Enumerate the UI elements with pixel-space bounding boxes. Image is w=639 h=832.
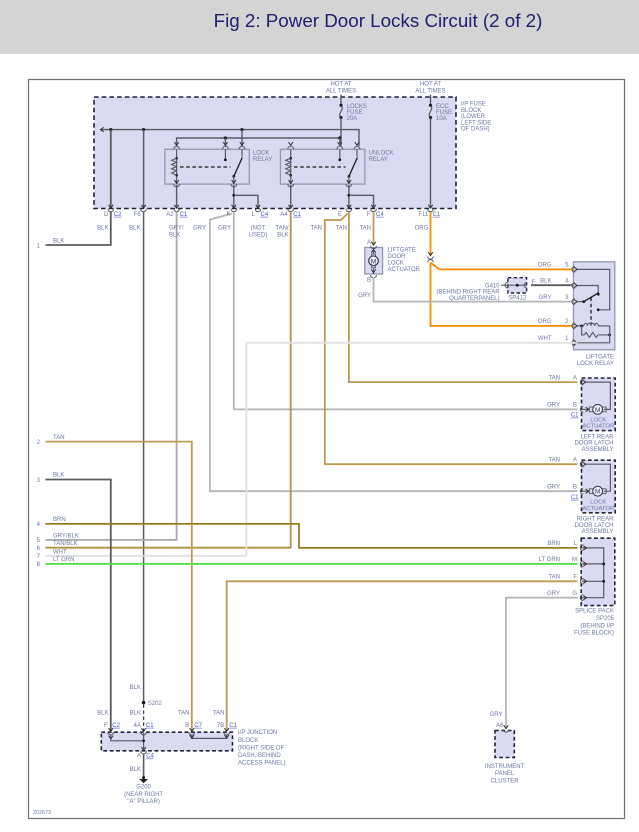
- svg-text:BLK: BLK: [277, 232, 288, 238]
- svg-text:E: E: [338, 212, 342, 218]
- wire TAN pin F down to liftgate actuator pin A: [373, 212, 375, 246]
- splice SP412 dashed box: [508, 278, 527, 293]
- svg-text:I/P FUSE: I/P FUSE: [461, 102, 486, 108]
- fuse block bottom pins cups and arrows: [109, 205, 113, 208]
- svg-text:6: 6: [37, 546, 41, 552]
- bus row A left arrow: [101, 127, 104, 131]
- unlock relay bottom pin cups: [289, 180, 293, 183]
- svg-text:K: K: [226, 211, 230, 217]
- svg-text:BLK: BLK: [130, 685, 141, 691]
- unlock relay control dashed line: [294, 166, 346, 168]
- svg-text:5: 5: [565, 263, 569, 269]
- svg-text:B: B: [367, 278, 371, 284]
- wire from hot feed to ecc fuse: [430, 95, 432, 106]
- svg-text:G200: G200: [136, 785, 151, 791]
- svg-text:LOCK: LOCK: [388, 261, 404, 267]
- svg-text:L: L: [252, 212, 256, 218]
- unlock relay NC contact: [339, 149, 341, 159]
- svg-text:"A" PILLAR): "A" PILLAR): [127, 799, 160, 805]
- svg-text:ASSEMBLY: ASSEMBLY: [582, 529, 614, 535]
- svg-text:ALL TIMES: ALL TIMES: [326, 88, 356, 94]
- svg-text:TAN: TAN: [548, 457, 560, 463]
- svg-text:BLK: BLK: [97, 226, 108, 232]
- svg-text:ACTUATOR: ACTUATOR: [388, 267, 421, 273]
- row3 BLK wire to junction block pin F: [46, 480, 111, 732]
- SP412 internal wire: [509, 284, 527, 286]
- svg-text:GRY: GRY: [547, 591, 560, 597]
- wire GRY pin K diagonal branch down to right rear latch pin B: [210, 214, 578, 492]
- row2 TAN wire to junction block pin B: [46, 442, 192, 731]
- svg-text:HOT AT: HOT AT: [330, 82, 351, 88]
- wire GRY actuator pin B to liftgate relay pin 3: [374, 278, 578, 302]
- lock relay switch arm: [241, 149, 243, 157]
- svg-text:20A: 20A: [347, 116, 358, 122]
- dashed wire S202 to junction block pin 4A: [143, 705, 145, 732]
- wire bus A to lock relay arm pin: [241, 130, 243, 146]
- svg-text:C2: C2: [112, 723, 120, 729]
- junction dots on bus A: [109, 128, 112, 131]
- svg-text:QUARTERPANEL): QUARTERPANEL): [449, 296, 499, 302]
- junction block internal bracket right: [192, 735, 227, 739]
- svg-text:GRY: GRY: [547, 403, 560, 409]
- svg-text:WHT: WHT: [53, 549, 67, 555]
- wire BLK pin D down to row1: [46, 212, 111, 245]
- svg-text:(RIGHT SIDE OF: (RIGHT SIDE OF: [238, 745, 285, 751]
- svg-text:L: L: [574, 541, 578, 547]
- svg-text:TAN: TAN: [359, 226, 371, 232]
- svg-text:202673: 202673: [33, 810, 51, 816]
- lock relay common to bottom pin: [233, 176, 235, 184]
- svg-text:1: 1: [37, 243, 41, 249]
- svg-text:C1: C1: [293, 212, 301, 218]
- wire unlock coil to pin A4: [290, 185, 292, 209]
- unlock relay switch arm: [356, 149, 358, 157]
- wire BLK SP412 to liftgate relay pin 4: [531, 284, 578, 286]
- liftgate door lock actuator box: [365, 248, 383, 275]
- svg-text:B: B: [573, 484, 577, 490]
- svg-text:M: M: [572, 557, 577, 563]
- svg-text:F: F: [573, 575, 577, 581]
- svg-text:C1: C1: [229, 723, 237, 729]
- wire GRY pin K straight down to left rear latch pin B: [234, 212, 578, 409]
- liftgate actuator internal motor: [373, 248, 375, 255]
- fuse LOCKS FUSE 20A: [339, 104, 342, 107]
- svg-text:OF DASH): OF DASH): [461, 127, 490, 133]
- svg-text:LEFT SIDE: LEFT SIDE: [461, 120, 491, 126]
- svg-text:LOCK: LOCK: [253, 151, 269, 157]
- svg-text:F: F: [367, 212, 371, 218]
- liftgate relay switch arm: [578, 301, 584, 303]
- svg-text:GRY: GRY: [547, 484, 560, 490]
- svg-text:SP205: SP205: [596, 616, 615, 622]
- unlock relay box: [280, 149, 365, 184]
- svg-text:WHT: WHT: [538, 336, 552, 342]
- wire WHT liftgate relay pin1 to row7: [46, 343, 578, 556]
- right rear actuator motor: [586, 464, 610, 491]
- liftgate relay internal pin5 path to NO contact: [578, 269, 610, 309]
- svg-text:BLK: BLK: [169, 232, 180, 238]
- wire lock common to pin K with branch: [233, 185, 235, 209]
- svg-text:GRY: GRY: [193, 226, 206, 232]
- svg-text:UNLOCK: UNLOCK: [369, 151, 394, 157]
- unlock relay common to bottom pin: [348, 176, 350, 184]
- svg-text:M: M: [371, 258, 376, 265]
- svg-text:ACTUATOR: ACTUATOR: [582, 424, 614, 430]
- junction block internal bracket left: [111, 735, 144, 741]
- svg-text:LEFT REAR: LEFT REAR: [581, 434, 615, 440]
- svg-text:Fig 2: Power Door Locks Circui: Fig 2: Power Door Locks Circuit (2 of 2): [214, 10, 543, 31]
- wire TAN/BLK pin A4 down to row6: [46, 212, 291, 548]
- svg-text:ORG: ORG: [538, 263, 552, 269]
- svg-text:BLK: BLK: [130, 767, 141, 773]
- I/P fuse block dashed box: [94, 97, 456, 209]
- svg-text:TAN: TAN: [310, 226, 322, 232]
- liftgate lock relay box: [573, 262, 614, 350]
- svg-text:10A: 10A: [436, 116, 447, 122]
- svg-text:2: 2: [565, 319, 569, 325]
- wire TAN splice pack pin F to junction block pin 7B: [227, 581, 578, 731]
- pin A cup left rear: [583, 380, 586, 384]
- junction block bottom pin cup: [141, 747, 145, 750]
- svg-text:C1: C1: [571, 495, 579, 501]
- wire locks fuse to unlock relay common: [340, 118, 342, 146]
- svg-text:BLOCK: BLOCK: [238, 738, 258, 744]
- svg-text:ACTUATOR: ACTUATOR: [582, 506, 614, 512]
- wire GRY splice pin G to instrument panel cluster: [506, 598, 578, 729]
- svg-text:CLUSTER: CLUSTER: [491, 778, 520, 784]
- svg-text:4: 4: [37, 522, 41, 528]
- svg-text:RELAY: RELAY: [253, 157, 272, 163]
- svg-text:BRN: BRN: [547, 541, 560, 547]
- pin B cup left rear: [580, 407, 583, 413]
- pin B cup: [371, 275, 377, 278]
- svg-text:ACCESS PANEL): ACCESS PANEL): [238, 761, 286, 767]
- svg-text:5: 5: [37, 538, 41, 544]
- svg-text:SPLICE PACK: SPLICE PACK: [575, 609, 614, 615]
- svg-text:8: 8: [37, 562, 41, 568]
- svg-text:C1: C1: [571, 413, 579, 419]
- wire ecc fuse to pin F11: [430, 118, 432, 209]
- svg-text:(BEHIND I/P: (BEHIND I/P: [580, 623, 614, 629]
- wire bus A to pin D: [110, 130, 112, 209]
- wire TAN pin E straight down to left rear latch pin A: [349, 212, 578, 382]
- liftgate relay internal pin4 path to NC contact: [578, 286, 599, 294]
- svg-text:GRY: GRY: [539, 295, 552, 301]
- wire bus A to pin F6: [143, 130, 145, 209]
- lock relay bottom pin cups: [174, 180, 178, 183]
- pin B wire into motor right rear: [582, 490, 589, 492]
- svg-text:BLOCK: BLOCK: [461, 108, 481, 114]
- svg-text:S202: S202: [148, 701, 163, 707]
- svg-text:A6: A6: [496, 723, 504, 729]
- branch to pin L: [234, 195, 258, 208]
- wire from hot feed to locks fuse: [340, 95, 342, 106]
- liftgate relay control dashed line: [590, 298, 592, 324]
- svg-text:I/P JUNCTION: I/P JUNCTION: [238, 730, 277, 736]
- lock relay pin cups top: [174, 142, 178, 145]
- svg-text:TAN/BLK: TAN/BLK: [53, 541, 78, 547]
- inline connector in ORG wire: [428, 252, 432, 255]
- svg-text:BLK: BLK: [97, 710, 108, 716]
- svg-text:DOOR: DOOR: [388, 254, 407, 260]
- lock relay box: [165, 149, 250, 184]
- instrument panel cluster dashed box: [495, 731, 514, 758]
- svg-text:C4: C4: [146, 754, 154, 760]
- svg-text:ASSEMBLY: ASSEMBLY: [582, 447, 614, 453]
- splice pack dashed box: [581, 538, 615, 605]
- NC stub down to lock relay: [224, 138, 226, 146]
- svg-text:USED): USED): [249, 232, 268, 238]
- liftgate relay pin cups: [574, 267, 577, 271]
- svg-text:(LOWER: (LOWER: [461, 114, 486, 120]
- instrument panel cluster pin cup: [504, 725, 508, 728]
- wire BLK junction block to ground: [143, 755, 145, 777]
- wire fuse pin into unlock relay: [339, 138, 341, 146]
- splice pack internal bus: [582, 548, 604, 598]
- wire ORG pin F11 down to inline connector: [430, 212, 432, 256]
- svg-text:GRY: GRY: [490, 712, 503, 718]
- svg-text:LIFTGATE: LIFTGATE: [388, 248, 416, 254]
- bus row A: [101, 130, 359, 146]
- right rear lock actuator dashed box: [582, 460, 616, 513]
- svg-text:TAN: TAN: [178, 710, 190, 716]
- branch to pin F: [349, 195, 374, 208]
- svg-text:C1: C1: [180, 212, 188, 218]
- svg-text:DOOR LATCH: DOOR LATCH: [575, 441, 614, 447]
- svg-text:M: M: [595, 489, 600, 496]
- wire TAN pin E diagonal branch down to right rear latch pin A: [325, 214, 578, 465]
- svg-text:F: F: [104, 723, 108, 729]
- svg-text:TAN: TAN: [53, 435, 65, 441]
- row8 LT GRN wire to splice pack pin M: [46, 563, 578, 565]
- svg-text:C4: C4: [376, 212, 384, 218]
- svg-text:BLK: BLK: [53, 473, 64, 479]
- svg-text:A: A: [137, 754, 141, 760]
- svg-text:7B: 7B: [217, 723, 224, 729]
- svg-text:7: 7: [37, 554, 41, 560]
- svg-text:TAN: TAN: [213, 710, 225, 716]
- svg-text:G: G: [572, 591, 577, 597]
- liftgate relay coil and resistor: [578, 325, 584, 327]
- svg-text:LOCK: LOCK: [590, 500, 606, 506]
- left rear actuator motor: [586, 382, 610, 409]
- svg-text:A4: A4: [280, 212, 288, 218]
- svg-text:DOOR LATCH: DOOR LATCH: [575, 523, 614, 529]
- splice S202: [142, 701, 146, 705]
- svg-text:C2: C2: [114, 212, 122, 218]
- pin B wire into motor left rear: [582, 408, 589, 410]
- svg-text:4A: 4A: [133, 723, 140, 729]
- svg-text:B: B: [185, 723, 189, 729]
- junction dot bus B at NC stub: [224, 136, 227, 139]
- svg-text:LOCK: LOCK: [590, 417, 606, 423]
- svg-text:1: 1: [565, 336, 569, 342]
- svg-text:ALL TIMES: ALL TIMES: [415, 88, 445, 94]
- svg-text:D: D: [104, 212, 109, 218]
- svg-text:C1: C1: [433, 212, 441, 218]
- svg-text:(BEHIND RIGHT REAR: (BEHIND RIGHT REAR: [436, 289, 500, 295]
- svg-text:RIGHT REAR: RIGHT REAR: [577, 517, 615, 523]
- svg-text:A: A: [573, 457, 577, 463]
- svg-text:LIFTGATE: LIFTGATE: [586, 354, 614, 360]
- svg-text:BLK: BLK: [540, 279, 551, 285]
- svg-text:TAN/: TAN/: [275, 226, 289, 232]
- svg-text:A: A: [573, 375, 577, 381]
- svg-text:F6: F6: [134, 212, 142, 218]
- svg-text:BLK: BLK: [130, 710, 141, 716]
- svg-text:GRY/: GRY/: [169, 226, 184, 232]
- svg-text:BLK: BLK: [53, 239, 64, 245]
- junction dot fuse to bus B: [338, 136, 341, 139]
- pin B cup right rear: [580, 488, 583, 494]
- svg-text:2: 2: [37, 440, 41, 446]
- svg-text:HOT AT: HOT AT: [420, 82, 441, 88]
- svg-text:A2: A2: [166, 212, 174, 218]
- svg-text:GRY: GRY: [358, 293, 371, 299]
- svg-text:M: M: [595, 407, 600, 414]
- junction block pin cups top: [109, 728, 113, 731]
- svg-text:PANEL: PANEL: [495, 771, 515, 777]
- svg-text:ORG: ORG: [538, 319, 552, 325]
- unlock relay coil: [290, 149, 292, 184]
- svg-text:3: 3: [37, 478, 41, 484]
- svg-text:LOCK RELAY: LOCK RELAY: [577, 361, 614, 367]
- svg-text:A: A: [367, 240, 371, 246]
- svg-text:3: 3: [565, 295, 569, 301]
- svg-text:BRN: BRN: [53, 517, 66, 523]
- liftgate relay pin1 path: [578, 326, 610, 343]
- page header bar: [0, 0, 639, 54]
- wire GRY/BLK pin A2 down to row5: [46, 212, 177, 540]
- ground G200 arrow: [142, 776, 145, 779]
- wire BLK pin F6 down to splice S202: [143, 212, 145, 701]
- wire ORG to liftgate relay pin 5 and pin 2: [431, 263, 578, 326]
- svg-text:F: F: [532, 280, 536, 286]
- lock relay coil: [176, 149, 178, 184]
- G410 arrow and cup: [508, 283, 511, 287]
- svg-text:F11: F11: [418, 212, 429, 218]
- svg-text:C4: C4: [261, 212, 269, 218]
- svg-text:TAN: TAN: [548, 575, 560, 581]
- svg-text:(NEAR RIGHT: (NEAR RIGHT: [124, 792, 163, 798]
- svg-text:C1: C1: [146, 723, 154, 729]
- svg-text:INSTRUMENT: INSTRUMENT: [485, 764, 525, 770]
- bus row B: [177, 138, 340, 146]
- svg-text:TAN: TAN: [548, 375, 560, 381]
- left rear lock actuator dashed box: [582, 378, 616, 431]
- svg-text:GRY: GRY: [218, 226, 231, 232]
- liftgate actuator pin A cup: [371, 242, 375, 245]
- row4 BRN wire to splice pack pin L: [46, 524, 578, 548]
- svg-text:RELAY: RELAY: [369, 157, 388, 163]
- wire lock coil to pin A2: [176, 185, 178, 209]
- lock relay NC contact: [224, 149, 226, 159]
- svg-text:TAN: TAN: [335, 226, 347, 232]
- lock relay control dashed line: [180, 166, 231, 168]
- svg-text:DASH, BEHIND: DASH, BEHIND: [238, 753, 281, 759]
- fuse ECC FUSE 10A: [429, 104, 432, 107]
- pin A cup right rear: [583, 462, 586, 466]
- svg-text:(NOT: (NOT: [251, 226, 266, 232]
- svg-text:B: B: [573, 403, 577, 409]
- I/P junction block dashed box: [101, 732, 232, 751]
- unlock relay pin cups top: [289, 142, 293, 145]
- svg-text:C7: C7: [194, 723, 202, 729]
- svg-text:LT GRN: LT GRN: [53, 557, 74, 563]
- svg-text:4: 4: [565, 279, 569, 285]
- svg-text:SP412: SP412: [508, 296, 527, 302]
- svg-text:GRY/BLK: GRY/BLK: [53, 533, 79, 539]
- svg-text:BLK: BLK: [129, 226, 140, 232]
- wire unlock common to pin E with branch: [348, 185, 350, 209]
- svg-text:FUSE BLOCK): FUSE BLOCK): [574, 631, 614, 637]
- splice pack pin cups: [583, 546, 586, 550]
- svg-text:ORG: ORG: [415, 226, 429, 232]
- svg-text:LT GRN: LT GRN: [539, 557, 560, 563]
